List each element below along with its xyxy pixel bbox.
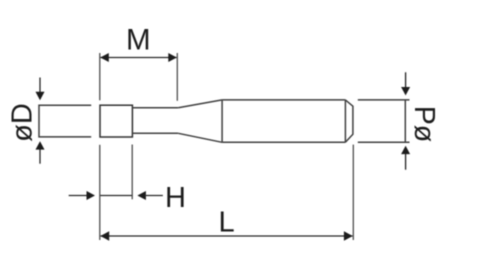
- svg-text:Pø: Pø: [408, 106, 440, 142]
- svg-text:øD: øD: [7, 103, 39, 142]
- svg-text:L: L: [219, 207, 235, 239]
- svg-text:H: H: [165, 182, 186, 214]
- svg-text:M: M: [126, 24, 151, 57]
